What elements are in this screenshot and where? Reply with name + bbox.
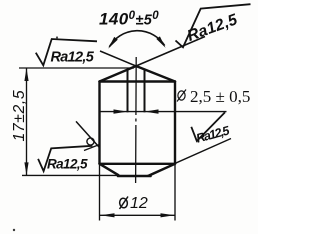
svg-text:12: 12 <box>130 195 148 212</box>
svg-text:17±2,5: 17±2,5 <box>11 90 28 142</box>
svg-text:Ra12,5: Ra12,5 <box>51 50 95 66</box>
short tick below circle <box>84 145 100 151</box>
cone right face <box>136 66 175 82</box>
leader with circle to left edge <box>76 121 99 147</box>
dimension line hole 2,5 with shelf <box>100 111 227 113</box>
right frustum slant <box>150 164 175 175</box>
scan speck <box>13 229 15 231</box>
roughness symbol top-left radical <box>36 39 97 65</box>
dimension line d12 <box>100 214 175 216</box>
diameter symbol for 12 <box>119 197 128 210</box>
cone face extension line upper-left <box>100 51 136 66</box>
chamfer shoulder line <box>100 163 176 165</box>
roughness symbol top-right radical <box>176 4 251 47</box>
extension line top (17 dim) <box>19 67 134 69</box>
arrow d12 right <box>161 213 175 217</box>
svg-text:2,5 ± 0,5: 2,5 ± 0,5 <box>190 87 250 106</box>
right edge <box>174 82 176 164</box>
extension line bottom (17 dim) <box>22 174 119 176</box>
arrow 17 bottom <box>24 162 28 175</box>
arrow 17 top <box>24 68 28 81</box>
cone face extension line upper-right <box>136 37 205 67</box>
cone left face <box>100 66 137 82</box>
cylinder body outline <box>100 66 176 176</box>
diameter symbol for 2,5 <box>177 90 186 102</box>
arrow hole left <box>114 109 128 113</box>
roughness symbol mid-right radical <box>191 112 225 141</box>
top edge <box>100 80 176 82</box>
arrow d12 left <box>101 213 115 217</box>
hole wall left <box>127 71 129 113</box>
hole wall right <box>144 70 146 112</box>
frustum bottom edge <box>118 175 151 178</box>
leader line mid-right roughness <box>146 139 231 177</box>
arc arrowhead right <box>156 36 165 48</box>
paper background <box>0 0 258 234</box>
roughness symbol bottom-left radical <box>38 146 92 171</box>
centerline axis <box>135 57 138 187</box>
arc arrowhead left <box>108 37 118 49</box>
angle arc 140 deg <box>109 31 164 47</box>
scan speck <box>56 36 58 38</box>
arrow hole right <box>145 109 159 113</box>
circle on leader <box>87 138 94 145</box>
dimension line 17 <box>26 68 28 175</box>
left edge <box>98 82 100 164</box>
left frustum slant <box>100 164 119 175</box>
extension line d12 left <box>99 165 101 221</box>
extension line d12 right <box>174 165 176 221</box>
svg-text:Ra12,5: Ra12,5 <box>47 157 88 172</box>
